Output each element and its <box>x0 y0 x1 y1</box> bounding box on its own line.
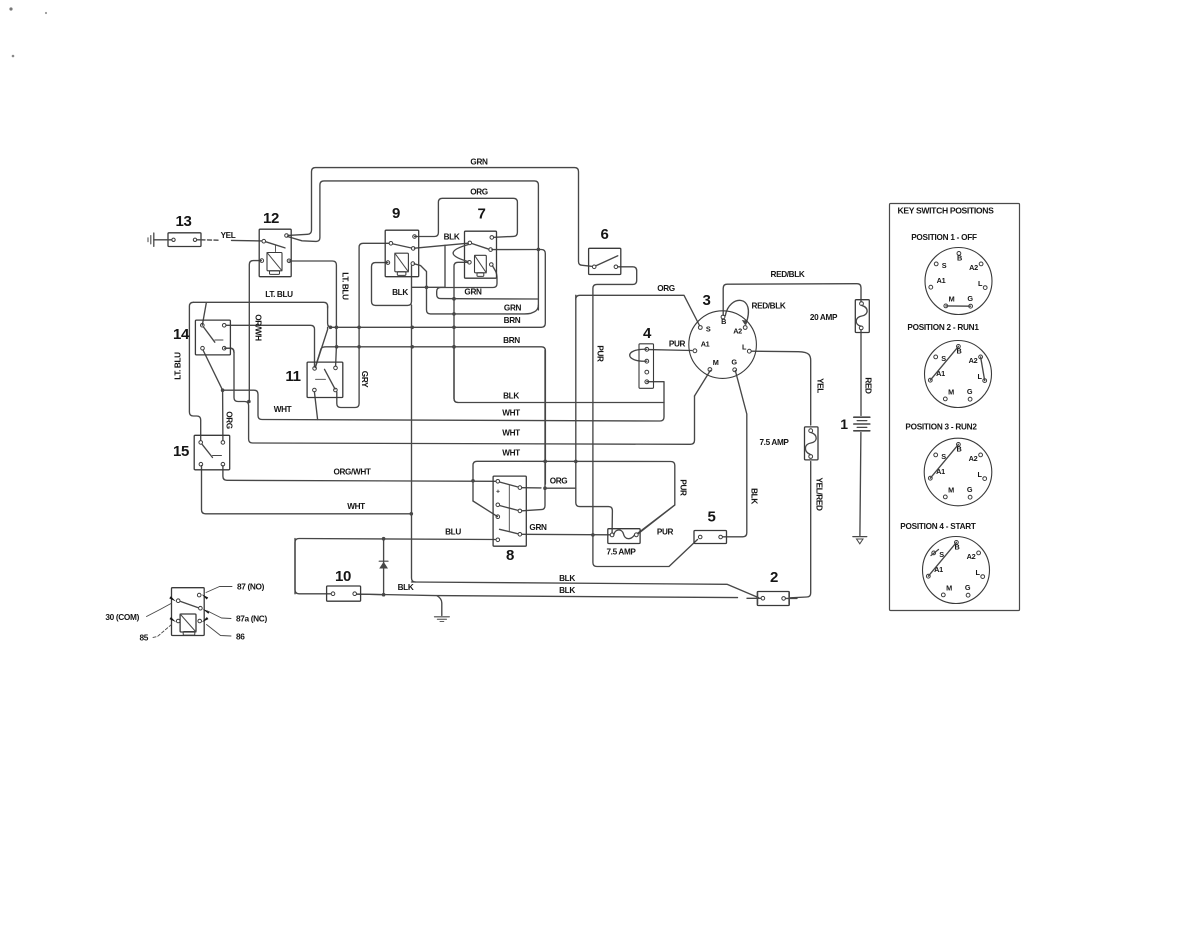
svg-text:GRN: GRN <box>504 304 522 313</box>
relay pin 87 annotation <box>202 582 265 600</box>
wire ORG vertical to 15 TR <box>221 388 234 440</box>
component 8 (gang switch) <box>493 476 526 564</box>
wire LT.BLU left vertical to 15 TL <box>174 302 201 440</box>
svg-text:ORG/WHT: ORG/WHT <box>333 468 370 477</box>
component 2 (connector) <box>747 569 797 606</box>
relay pin 30 annotation <box>105 596 176 622</box>
fuse F2 7.5 AMP (right) <box>759 427 818 460</box>
wire ORG (x575.8 to S) <box>576 284 700 326</box>
panel position 2 RUN1 <box>907 323 991 408</box>
relay pin 85 annotation <box>139 617 176 642</box>
svg-text:20 AMP: 20 AMP <box>810 313 838 322</box>
svg-text:A2: A2 <box>969 454 978 463</box>
svg-text:BLK: BLK <box>392 288 408 297</box>
wire GRN (9 RL via x426.5 to x537.7) <box>414 264 538 314</box>
svg-text:LT. BLU: LT. BLU <box>341 272 350 300</box>
wire BRN1 bus y327.3 <box>328 250 546 330</box>
wire 10 to diode node <box>357 593 384 596</box>
svg-text:POSITION 2 - RUN1: POSITION 2 - RUN1 <box>907 323 979 332</box>
svg-text:GRN: GRN <box>529 523 547 532</box>
svg-text:PUR: PUR <box>679 479 688 496</box>
wire loop under 9 (LM to RL) <box>372 263 412 306</box>
svg-text:M: M <box>948 388 954 397</box>
fuse F1 20 AMP <box>810 300 869 333</box>
svg-text:GRN: GRN <box>470 158 488 167</box>
wire BLU branch to 10 <box>295 539 331 594</box>
svg-text:G: G <box>965 583 971 592</box>
svg-text:86: 86 <box>236 632 245 642</box>
svg-text:M: M <box>713 358 719 367</box>
ground (mid, from BLK2 bus) <box>435 596 450 622</box>
wire ORG/WHT bus y480.3 <box>223 466 496 483</box>
svg-text:30 (COM): 30 (COM) <box>105 612 139 622</box>
wire GRN (8 R3 to fuse 7.5A) <box>522 523 610 535</box>
svg-text:G: G <box>967 485 973 494</box>
svg-text:1: 1 <box>840 416 848 432</box>
wire vertical x575.8 to fuse 7.5A <box>576 295 613 532</box>
ground (battery) <box>853 537 867 544</box>
svg-text:B: B <box>721 317 726 326</box>
wire bus2 (vert x321.5 to vert x537.7) <box>288 181 541 310</box>
wire YEL (L to fuse 7.5A #2) <box>752 351 825 425</box>
wire RED/BLK (B to fuse 20A) <box>723 270 861 315</box>
svg-text:BLU: BLU <box>445 528 461 537</box>
svg-text:YEL: YEL <box>221 231 236 240</box>
relay K1 inset <box>172 588 205 636</box>
svg-text:GRY: GRY <box>360 371 369 388</box>
svg-text:BLK: BLK <box>398 583 414 592</box>
svg-text:7: 7 <box>478 206 486 223</box>
component 4 (connector) <box>639 325 654 388</box>
svg-text:87a (NC): 87a (NC) <box>236 614 267 624</box>
svg-text:WHT: WHT <box>502 429 520 438</box>
svg-text:7.5 AMP: 7.5 AMP <box>606 548 636 557</box>
wire LT.BLU bus y302.3 <box>193 290 327 308</box>
wire arc jumper at 7 (TL to LM) <box>453 245 468 262</box>
svg-text:G: G <box>967 387 973 396</box>
panel position 3 RUN2 <box>905 423 991 506</box>
wire GRN bus (12 TR to 6 left) <box>288 158 592 267</box>
svg-text:BRN: BRN <box>503 336 520 345</box>
svg-text:3: 3 <box>703 292 711 309</box>
wire PUR (fuse 7.5A right to x674.8) <box>639 479 688 533</box>
svg-text:PUR: PUR <box>657 528 674 537</box>
svg-text:RED: RED <box>864 377 873 394</box>
svg-text:YEL/RED: YEL/RED <box>815 477 824 510</box>
wire WHT1 bus y419.5 <box>223 382 664 421</box>
scan speckles (decorative ignored) <box>9 7 47 57</box>
svg-text:A1: A1 <box>937 276 946 285</box>
relay pin 87a annotation <box>203 609 268 624</box>
svg-text:A1: A1 <box>934 565 943 574</box>
svg-text:WHT: WHT <box>347 502 365 511</box>
component 6 (switch) <box>589 226 621 275</box>
key switch 3 <box>689 292 757 378</box>
wire BLK1 bus y582 <box>412 574 759 598</box>
svg-text:2: 2 <box>770 569 778 586</box>
svg-text:S: S <box>942 261 947 270</box>
svg-text:7.5 AMP: 7.5 AMP <box>759 438 789 447</box>
wire GRN under 7 (7 RL to x454 node) <box>437 266 538 301</box>
svg-text:ORG: ORG <box>657 284 675 293</box>
battery B1 <box>840 416 870 432</box>
wire BLK (G to 5 right) <box>723 371 759 537</box>
svg-text:15: 15 <box>173 443 189 460</box>
wire BLK bus y402.5 <box>454 348 664 403</box>
svg-text:GRN: GRN <box>464 288 482 297</box>
svg-text:A2: A2 <box>733 327 742 336</box>
component 15 (switch) <box>173 435 230 470</box>
wire BLU y538.5 <box>295 528 496 594</box>
component 9 (relay switch) <box>385 205 419 277</box>
wire BRN2 bus y346.8 <box>315 336 545 484</box>
svg-text:12: 12 <box>263 210 279 227</box>
wire LT.BLU (12 MR to 11 TR) <box>289 261 350 366</box>
svg-text:M: M <box>949 295 955 304</box>
svg-text:OR/WH: OR/WH <box>254 314 263 341</box>
wire stub node x445 <box>412 245 445 289</box>
svg-text:WHT: WHT <box>502 449 520 458</box>
svg-text:RED/BLK: RED/BLK <box>771 270 805 279</box>
svg-text:B: B <box>957 254 962 263</box>
svg-text:BLK: BLK <box>750 488 759 504</box>
wire ORG node at comp8 right <box>522 350 576 511</box>
svg-text:4: 4 <box>643 325 652 342</box>
svg-text:PUR: PUR <box>596 345 605 362</box>
relay pin 86 annotation <box>202 617 246 641</box>
label PUR (fuse to 5) <box>657 528 674 537</box>
wire 14 BR to OR/WH node <box>226 348 234 352</box>
svg-text:87 (NO): 87 (NO) <box>237 582 265 592</box>
wire PUR (4 T1 to A1) <box>649 340 692 351</box>
svg-text:POSITION 1 - OFF: POSITION 1 - OFF <box>911 233 977 242</box>
svg-text:BLK: BLK <box>559 574 575 583</box>
svg-text:M: M <box>948 486 954 495</box>
svg-text:WHT: WHT <box>274 405 292 414</box>
svg-text:LT. BLU: LT. BLU <box>265 290 293 299</box>
svg-text:85: 85 <box>139 633 148 643</box>
wire PUR (6 right via x592.9 to 5 left) <box>591 267 697 567</box>
diode D1 <box>379 539 388 595</box>
wire 7 LM down x454 <box>452 262 468 402</box>
svg-text:RED/BLK: RED/BLK <box>752 302 786 311</box>
component 11 (switch) <box>285 362 342 397</box>
wire YEL/RED (fuse to 2 right) <box>791 462 824 598</box>
svg-text:BLK: BLK <box>559 586 575 595</box>
svg-text:YEL: YEL <box>816 378 825 393</box>
svg-text:A2: A2 <box>969 263 978 272</box>
panel position 4 START <box>900 522 989 604</box>
svg-text:13: 13 <box>176 213 192 230</box>
wire YEL (13 to 12) <box>201 231 262 241</box>
wire 14 TR to 11 TL <box>226 325 315 366</box>
wire 14 TL to LT.BLU bus <box>202 303 206 325</box>
key switch positions panel frame <box>890 204 1020 611</box>
svg-text:A1: A1 <box>936 467 945 476</box>
wire battery negative to ground <box>860 433 861 536</box>
svg-text:M: M <box>946 584 952 593</box>
wire x327.6 down to 11 TL <box>315 327 327 367</box>
svg-text:6: 6 <box>601 226 609 243</box>
wire vertical x411.5 (to BLK1 bus) <box>412 305 416 582</box>
svg-text:A2: A2 <box>967 552 976 561</box>
wire BLK (9 RM to 7 TL) <box>415 233 469 249</box>
svg-text:8: 8 <box>506 547 514 564</box>
wire M stem <box>695 371 711 397</box>
component 10 (fuse link) <box>327 568 361 601</box>
wire GRY (9 TL to 11 BR) <box>337 243 389 407</box>
svg-text:BRN: BRN <box>504 316 521 325</box>
svg-text:11: 11 <box>285 368 300 385</box>
svg-text:KEY SWITCH POSITIONS: KEY SWITCH POSITIONS <box>898 206 995 216</box>
svg-text:ORG: ORG <box>550 477 568 486</box>
svg-text:BLK: BLK <box>503 392 519 401</box>
wire 11 BL to WHT1 <box>314 392 317 420</box>
svg-text:A2: A2 <box>969 356 978 365</box>
wire arc jumper at 4 <box>630 349 647 361</box>
svg-text:BLK: BLK <box>444 233 460 242</box>
svg-text:10: 10 <box>335 568 351 585</box>
svg-text:9: 9 <box>392 205 400 222</box>
wire ORG loop (9 TR to 7 TR node) <box>415 188 518 238</box>
svg-text:ORG: ORG <box>470 188 488 197</box>
ground (left of 13) <box>148 233 172 246</box>
svg-text:5: 5 <box>708 509 716 526</box>
svg-text:G: G <box>967 294 973 303</box>
svg-text:POSITION 3 - RUN2: POSITION 3 - RUN2 <box>905 423 977 432</box>
svg-text:PUR: PUR <box>669 340 686 349</box>
svg-text:ORG: ORG <box>225 411 234 429</box>
svg-text:G: G <box>731 358 737 367</box>
panel position 1 OFF <box>911 233 992 315</box>
component 13 (switch) <box>168 213 201 247</box>
wire WHT2 bus y443 <box>225 348 695 444</box>
svg-text:WHT: WHT <box>502 409 520 418</box>
wire BLK2 bus y595 <box>357 583 738 598</box>
component 12 (relay switch) <box>259 210 291 277</box>
svg-text:LT. BLU: LT. BLU <box>174 352 183 380</box>
wire WHT3 bus y461.3 <box>473 449 675 534</box>
wire 14 BL diagonal <box>203 350 223 390</box>
wire RED (fuse 20A to battery) <box>861 330 873 416</box>
wire WHT4 bus y513.8 <box>202 466 414 516</box>
component 5 (connector) <box>694 509 727 544</box>
svg-text:A1: A1 <box>936 369 945 378</box>
svg-text:14: 14 <box>173 326 190 343</box>
svg-text:S: S <box>706 324 711 333</box>
svg-text:A1: A1 <box>701 340 710 349</box>
component 14 (switch) <box>173 320 230 355</box>
wire OR/WH (12 ML down to WHT2 elbow) <box>247 261 262 404</box>
wire RED/BLK jumper (B to A2) <box>725 300 786 325</box>
component 7 (relay switch) <box>465 206 497 279</box>
svg-text:POSITION 4 - START: POSITION 4 - START <box>900 522 976 531</box>
fuse F3 7.5 AMP (bottom) <box>606 529 640 557</box>
